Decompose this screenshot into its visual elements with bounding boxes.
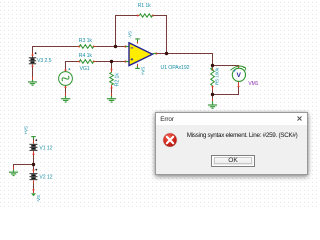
- svg-text:+VS: +VS: [24, 126, 29, 134]
- svg-text:V1 12: V1 12: [39, 145, 52, 151]
- svg-text:R5 100k: R5 100k: [215, 67, 221, 85]
- svg-text:VG1: VG1: [80, 66, 90, 72]
- svg-text:R2 1k: R2 1k: [115, 73, 121, 87]
- svg-text:R1 1k: R1 1k: [138, 3, 152, 9]
- svg-text:-VS: -VS: [128, 31, 133, 38]
- svg-text:R4 1k: R4 1k: [79, 53, 93, 59]
- svg-text:U1 OPAx192: U1 OPAx192: [161, 65, 190, 71]
- svg-text:V3 2.5: V3 2.5: [37, 58, 52, 64]
- svg-text:V2 12: V2 12: [39, 175, 52, 181]
- svg-text:V: V: [236, 72, 241, 79]
- svg-text:R3 1k: R3 1k: [79, 38, 93, 44]
- svg-text:Error: Error: [160, 116, 175, 123]
- svg-text:+VS: +VS: [140, 67, 145, 75]
- svg-text:-VS: -VS: [36, 195, 41, 202]
- svg-text:VM1: VM1: [248, 81, 258, 87]
